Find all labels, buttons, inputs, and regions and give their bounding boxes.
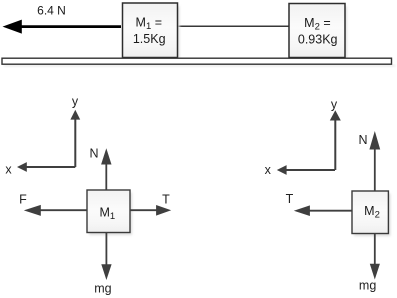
mass box M2 shadow — [292, 7, 347, 60]
svg-text:y: y — [331, 98, 338, 112]
surface (table) — [2, 58, 392, 64]
mass box M1 shadow — [126, 6, 180, 59]
svg-text:1.5Kg: 1.5Kg — [133, 32, 166, 46]
left FBD: friction force arrow F — [24, 205, 87, 216]
left FBD: coordinate axes — [17, 110, 80, 172]
left FBD: weight arrow mg — [101, 233, 111, 281]
right FBD: tension arrow T — [294, 205, 352, 216]
svg-text:N: N — [358, 133, 367, 147]
right FBD: box shadow — [354, 194, 390, 237]
svg-text:N: N — [89, 147, 98, 161]
svg-text:T: T — [162, 193, 170, 207]
left FBD: box shadow — [89, 193, 132, 236]
right FBD: normal force arrow N — [369, 131, 380, 191]
svg-text:mg: mg — [94, 281, 111, 295]
svg-text:x: x — [265, 163, 272, 177]
right FBD: mass box M2 — [352, 191, 388, 234]
left FBD: normal force arrow N — [101, 148, 111, 190]
mass box M2 (0.93Kg) — [289, 4, 345, 58]
mass box M1 (1.5Kg) — [123, 3, 178, 58]
surface shadow — [4, 65, 395, 67]
applied force arrow 6.4 N — [3, 20, 122, 34]
svg-text:6.4 N: 6.4 N — [37, 4, 66, 18]
svg-text:x: x — [5, 163, 12, 177]
right FBD: coordinate axes — [277, 110, 341, 175]
left FBD: mass box M1 — [87, 190, 130, 233]
svg-text:F: F — [19, 193, 27, 207]
svg-text:T: T — [286, 192, 294, 206]
left FBD: tension arrow T — [130, 205, 171, 216]
svg-text:0.93Kg: 0.93Kg — [298, 33, 338, 47]
svg-text:mg: mg — [359, 279, 376, 293]
svg-text:y: y — [72, 95, 79, 109]
rope between M1 and M2 — [178, 25, 290, 27]
right FBD: weight arrow mg — [370, 234, 380, 280]
